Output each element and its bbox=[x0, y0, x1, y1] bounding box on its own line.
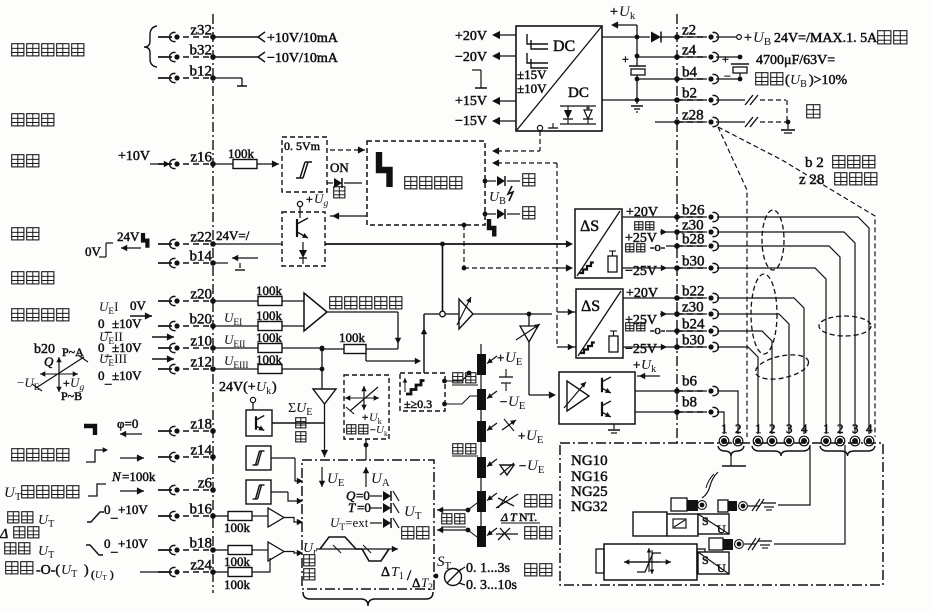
svg-text:z10: z10 bbox=[190, 334, 212, 350]
svg-text:=0: =0 bbox=[357, 500, 371, 515]
svg-text:+: + bbox=[744, 31, 752, 46]
svg-text:): ) bbox=[84, 563, 89, 578]
svg-text:z12: z12 bbox=[190, 355, 212, 371]
svg-text:z28: z28 bbox=[682, 108, 704, 124]
svg-text:_: _ bbox=[104, 371, 112, 386]
svg-text:b16: b16 bbox=[190, 502, 213, 518]
svg-text:b18: b18 bbox=[190, 536, 213, 552]
svg-text:b22: b22 bbox=[682, 284, 705, 300]
svg-text:+: + bbox=[518, 428, 525, 443]
svg-text:+10V: +10V bbox=[118, 536, 148, 551]
svg-text:100k: 100k bbox=[256, 330, 283, 345]
svg-text:b28: b28 bbox=[682, 232, 705, 248]
svg-text:b32: b32 bbox=[190, 43, 213, 59]
svg-text:NG10: NG10 bbox=[571, 453, 608, 469]
svg-text:−25V: −25V bbox=[625, 264, 657, 279]
svg-text:z22: z22 bbox=[190, 230, 212, 246]
svg-text:Δ: Δ bbox=[0, 527, 8, 542]
svg-text:z32: z32 bbox=[190, 23, 212, 39]
svg-text:z18: z18 bbox=[190, 417, 212, 433]
svg-text:z 28: z 28 bbox=[799, 172, 824, 188]
svg-text:24V(+: 24V(+ bbox=[219, 380, 256, 395]
svg-text:−: − bbox=[724, 69, 731, 83]
svg-text:ΔS: ΔS bbox=[580, 218, 599, 235]
svg-text:1: 1 bbox=[755, 421, 762, 436]
svg-text:): ) bbox=[110, 569, 114, 581]
svg-text:b 2: b 2 bbox=[805, 155, 824, 171]
svg-text:+20V: +20V bbox=[626, 205, 658, 220]
svg-text:+10V: +10V bbox=[118, 149, 150, 164]
svg-text:24V=/MAX.1. 5A: 24V=/MAX.1. 5A bbox=[774, 31, 878, 46]
svg-text:+: + bbox=[610, 5, 618, 20]
svg-text:+: + bbox=[63, 376, 70, 390]
svg-text:0V: 0V bbox=[130, 298, 147, 313]
svg-text:+: + bbox=[306, 192, 313, 206]
svg-text:0: 0 bbox=[104, 536, 111, 551]
svg-text:Q: Q bbox=[44, 354, 54, 369]
svg-text:b30: b30 bbox=[682, 254, 705, 270]
svg-text:-O-(: -O-( bbox=[36, 563, 60, 578]
svg-text:24V=/: 24V=/ bbox=[216, 228, 250, 243]
svg-text:)>10%: )>10% bbox=[809, 73, 848, 88]
svg-text:b12: b12 bbox=[190, 64, 213, 80]
svg-text:ΔS: ΔS bbox=[581, 298, 600, 315]
svg-text:100k: 100k bbox=[256, 283, 283, 298]
svg-text:Δ: Δ bbox=[500, 510, 508, 524]
svg-text:±10V: ±10V bbox=[517, 81, 547, 96]
svg-text:z6: z6 bbox=[198, 476, 213, 492]
svg-text:4: 4 bbox=[801, 421, 808, 436]
svg-text:3: 3 bbox=[786, 421, 793, 436]
svg-text:NG16: NG16 bbox=[571, 469, 608, 485]
svg-text:b30: b30 bbox=[682, 333, 705, 349]
svg-text:Δ: Δ bbox=[381, 565, 390, 580]
svg-text:b26: b26 bbox=[682, 203, 705, 219]
svg-text:z2: z2 bbox=[682, 23, 696, 39]
svg-text:0. 1...3s: 0. 1...3s bbox=[466, 561, 510, 576]
svg-text:100k: 100k bbox=[256, 308, 283, 323]
svg-text:-o-: -o- bbox=[650, 239, 665, 254]
svg-text:S: S bbox=[702, 553, 709, 567]
svg-text:_: _ bbox=[110, 539, 118, 554]
svg-text:b2: b2 bbox=[682, 86, 697, 102]
svg-text:z30: z30 bbox=[682, 300, 704, 316]
svg-text:1: 1 bbox=[823, 421, 830, 436]
svg-text:+: + bbox=[722, 52, 729, 66]
svg-text:100k: 100k bbox=[224, 520, 251, 535]
svg-text:100k: 100k bbox=[224, 577, 251, 592]
svg-text:100k: 100k bbox=[228, 146, 255, 161]
svg-text:b6: b6 bbox=[682, 374, 698, 390]
svg-text:ON: ON bbox=[330, 160, 349, 175]
svg-text:−: − bbox=[500, 394, 507, 409]
svg-text:T: T bbox=[348, 500, 356, 515]
svg-text:NT.: NT. bbox=[519, 510, 537, 524]
svg-text:2: 2 bbox=[769, 421, 776, 436]
svg-text:0: 0 bbox=[98, 368, 105, 383]
svg-text:b14: b14 bbox=[190, 249, 213, 265]
svg-text:−: − bbox=[519, 458, 526, 473]
svg-text:b20: b20 bbox=[190, 312, 213, 328]
svg-text:+20V: +20V bbox=[455, 29, 487, 44]
svg-text:=100k: =100k bbox=[122, 469, 156, 484]
svg-text:): ) bbox=[272, 380, 277, 395]
svg-text:+: + bbox=[622, 52, 629, 66]
svg-text:+: + bbox=[633, 357, 640, 372]
svg-text:24V: 24V bbox=[117, 229, 140, 244]
svg-text:1: 1 bbox=[721, 421, 728, 436]
svg-text:+10V: +10V bbox=[118, 502, 148, 517]
svg-text:4: 4 bbox=[866, 421, 873, 436]
svg-text:U: U bbox=[717, 522, 726, 536]
svg-text:b4: b4 bbox=[682, 65, 698, 81]
svg-text:+10V/10mA: +10V/10mA bbox=[267, 31, 339, 46]
svg-text:3: 3 bbox=[852, 421, 859, 436]
svg-text:N: N bbox=[111, 469, 122, 484]
svg-text:DC: DC bbox=[553, 38, 575, 55]
svg-text:−25V: −25V bbox=[625, 342, 657, 357]
svg-text:_: _ bbox=[110, 505, 118, 520]
svg-text:0. 5Vm: 0. 5Vm bbox=[284, 139, 321, 153]
svg-text:z16: z16 bbox=[190, 150, 212, 166]
svg-text:±15V: ±15V bbox=[517, 67, 547, 82]
svg-text:S: S bbox=[702, 514, 709, 528]
svg-text:z14: z14 bbox=[190, 443, 212, 459]
svg-text:+15V: +15V bbox=[455, 94, 487, 109]
svg-text:b8: b8 bbox=[682, 395, 697, 411]
svg-text:4700μF/63V=: 4700μF/63V= bbox=[756, 53, 835, 68]
svg-text:φ=0: φ=0 bbox=[117, 416, 138, 431]
svg-text:0. 3...10s: 0. 3...10s bbox=[466, 578, 517, 593]
svg-text:+: + bbox=[497, 350, 504, 365]
svg-text:+20V: +20V bbox=[626, 286, 658, 301]
svg-text:±10V: ±10V bbox=[112, 368, 142, 383]
svg-text:z4: z4 bbox=[682, 43, 697, 59]
svg-text:P~B: P~B bbox=[61, 389, 82, 403]
svg-text:0: 0 bbox=[104, 502, 111, 517]
svg-text:2: 2 bbox=[837, 421, 844, 436]
svg-text:Δ: Δ bbox=[412, 575, 420, 590]
svg-text:NG25: NG25 bbox=[571, 484, 608, 500]
svg-text:±≥0.3: ±≥0.3 bbox=[404, 397, 432, 411]
svg-text:2: 2 bbox=[735, 421, 742, 436]
svg-text:100k: 100k bbox=[339, 330, 366, 345]
svg-text:−15V: −15V bbox=[455, 114, 487, 129]
svg-text:100k: 100k bbox=[224, 554, 251, 569]
svg-text:NG32: NG32 bbox=[571, 499, 608, 515]
svg-text:-o-: -o- bbox=[650, 322, 665, 337]
svg-text:−10V/10mA: −10V/10mA bbox=[267, 51, 339, 66]
svg-text:−20V: −20V bbox=[455, 50, 487, 65]
svg-text:U: U bbox=[717, 561, 726, 575]
svg-text:b24: b24 bbox=[682, 317, 705, 333]
svg-text:z20: z20 bbox=[190, 287, 212, 303]
svg-text:DC: DC bbox=[568, 85, 589, 101]
svg-text:+: + bbox=[362, 412, 368, 424]
svg-text:z24: z24 bbox=[190, 558, 212, 574]
